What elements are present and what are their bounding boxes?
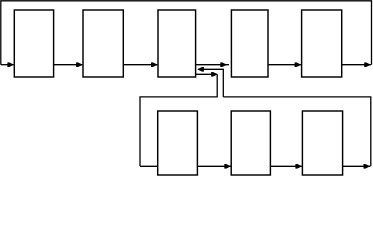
register R5 [302, 10, 342, 77]
register B3 [302, 111, 342, 175]
register R4 [231, 10, 268, 77]
arrowhead on line A toward R4 [220, 62, 227, 67]
register R1 [14, 10, 53, 77]
wire B1 to B2 [197, 165, 230, 167]
register R2 [83, 10, 123, 77]
wire R2 to R3 [123, 64, 157, 66]
arrowhead into B2 [224, 164, 231, 169]
arrowhead at right edge bottom [364, 164, 371, 169]
wire R3 tap down (line C into V1) [196, 73, 218, 75]
wire R1 to R2 [54, 64, 83, 66]
wire R4 to R5 [268, 64, 301, 66]
wire B3 to right vertical [343, 165, 371, 167]
wire input into R1 [1, 64, 14, 66]
wire feedback into R3 (line B, up from V2) [198, 69, 223, 97]
register B2 [231, 111, 270, 175]
wire R5 to right edge [342, 64, 371, 66]
arrowhead into B3 [295, 164, 302, 169]
wire B2 to B3 [270, 165, 301, 167]
wire R3 toward R4 (line A, stops short) [196, 64, 229, 66]
wire feed into B1 [140, 165, 158, 167]
wire right branch at y=97 to right vertical down to bottom row [223, 97, 370, 166]
arrowhead into R2 [76, 62, 83, 67]
arrowhead into R3 [151, 62, 158, 67]
wire top feedback loop (right vertical, top border, left vertical) [1, 1, 372, 65]
arrowhead into V1 (line C) [211, 72, 218, 77]
register R3 [158, 10, 196, 77]
wire V1 down and left branch at y=97 [140, 74, 217, 166]
register B1 [158, 111, 198, 175]
arrowhead at right edge top [364, 62, 371, 67]
arrowhead left into R3 (line B) [197, 67, 204, 72]
arrowhead into R5 [295, 62, 302, 67]
arrowhead input into R1 [7, 62, 14, 67]
